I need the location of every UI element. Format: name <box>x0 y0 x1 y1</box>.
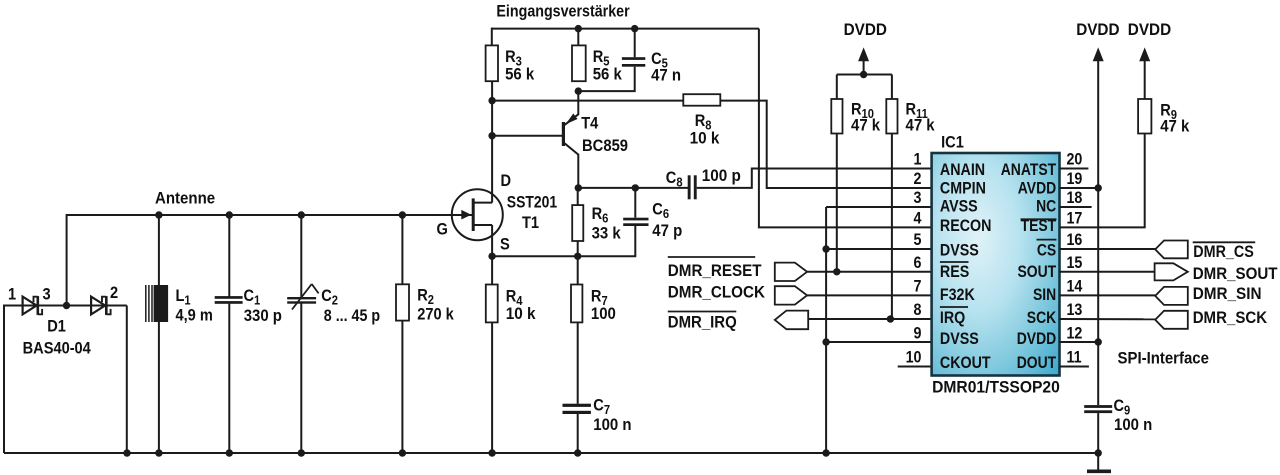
label C8 <box>666 169 683 190</box>
svg-text:DMR_RESET: DMR_RESET <box>668 261 762 280</box>
wire drain up <box>491 81 493 202</box>
wire C5 bottom to R5 node <box>578 67 634 91</box>
label 47 k R11 <box>906 117 935 135</box>
ic IC1 body <box>932 153 1060 376</box>
node ground dot C7 <box>574 449 581 456</box>
svg-text:DMR_CLOCK: DMR_CLOCK <box>668 283 765 302</box>
label DMR_RESET <box>668 261 762 280</box>
label 100 n C9 <box>1114 416 1152 434</box>
node AVSS ground dot <box>822 449 829 456</box>
pin number 5 <box>914 231 922 249</box>
overline CS <box>1037 239 1057 241</box>
svg-text:6: 6 <box>914 254 922 272</box>
pin number 4 <box>914 210 922 228</box>
svg-text:DMR_IRQ: DMR_IRQ <box>668 314 737 332</box>
svg-text:SIN: SIN <box>1033 286 1056 305</box>
wire C1 bottom stub <box>228 304 230 453</box>
node ground dot L1 <box>155 449 162 456</box>
capacitor C7 <box>563 404 591 407</box>
ground symbol <box>1087 469 1111 473</box>
connector DMR_CLOCK <box>775 286 807 304</box>
svg-text:AVDD: AVDD <box>1018 179 1056 198</box>
svg-text:5: 5 <box>914 231 922 249</box>
label DMR01/TSSOP20 <box>932 378 1060 397</box>
pin name ANAIN pin1 <box>940 161 985 179</box>
pin number 3 <box>914 189 922 207</box>
node rail dot C2 <box>298 211 305 218</box>
label R10 <box>851 101 874 122</box>
resistor R3 <box>486 45 498 81</box>
wire R4 bottom stub <box>491 322 493 453</box>
svg-text:16: 16 <box>1067 231 1083 249</box>
connector DMR_CS <box>1155 241 1188 259</box>
wire R11 top stub <box>891 75 893 100</box>
wire R8 row <box>492 100 684 102</box>
pin number 20 <box>1067 151 1083 169</box>
svg-text:8: 8 <box>914 301 922 319</box>
pin name RES pin6 <box>940 263 969 281</box>
pin name F32K pin7 <box>940 286 976 304</box>
svg-text:2: 2 <box>110 284 118 302</box>
label BAS40-04 <box>23 340 91 358</box>
label 330 p <box>244 307 282 325</box>
pin number 11 <box>1067 348 1082 366</box>
label SST201 <box>507 193 558 212</box>
svg-text:DVDD: DVDD <box>844 20 887 39</box>
wire R7 to C7 <box>577 322 579 403</box>
T4 collector <box>565 143 579 155</box>
svg-text:100 n: 100 n <box>593 416 631 434</box>
label T1 <box>522 214 539 232</box>
wire pin10 stub <box>898 366 932 368</box>
node ground dot C2 <box>298 449 305 456</box>
wire pin12 stub <box>1060 341 1099 343</box>
pin name DVDD pin12 <box>1017 330 1056 349</box>
pin number 17 <box>1067 210 1083 228</box>
svg-text:1: 1 <box>914 151 922 169</box>
capacitor C6 <box>623 218 648 221</box>
node R3-base dot <box>488 132 495 139</box>
label C5 <box>651 50 668 71</box>
svg-text:T4: T4 <box>581 115 598 133</box>
connector DMR_RESET <box>775 263 807 281</box>
node ground dot R4 <box>488 449 495 456</box>
svg-text:D: D <box>501 172 512 190</box>
node rail-R5 dot <box>575 25 582 32</box>
svg-text:47 k: 47 k <box>906 117 935 135</box>
label R8 <box>695 112 712 133</box>
pin label 3 <box>43 286 51 304</box>
label DMR_CS overline <box>1193 241 1256 243</box>
T4 base bar <box>562 122 565 146</box>
svg-text:7: 7 <box>914 277 922 295</box>
capacitor C8 <box>688 175 691 199</box>
svg-text:DVSS: DVSS <box>940 241 979 259</box>
node pin12 dot <box>1095 338 1102 345</box>
capacitor C2 trimmer <box>287 297 316 299</box>
T1 gate bar <box>472 198 475 231</box>
wire pin15 row <box>1060 271 1155 273</box>
label R5 <box>593 48 610 69</box>
connector DMR_SIN <box>1155 287 1188 305</box>
wire C5 top stub <box>634 28 636 58</box>
node R11 pin8 dot <box>887 315 894 322</box>
resistor R7 <box>571 285 582 323</box>
svg-text:CMPIN: CMPIN <box>940 179 986 197</box>
label C7 <box>593 397 610 418</box>
power DVDD right label <box>1128 20 1171 39</box>
svg-text:1: 1 <box>8 286 16 304</box>
wire pin16 row <box>1060 248 1156 250</box>
svg-text:14: 14 <box>1067 277 1083 295</box>
pin name CKOUT pin10 <box>940 354 991 372</box>
svg-text:330 p: 330 p <box>244 307 282 325</box>
wire pin11 stub <box>1060 366 1089 368</box>
node pin19 dot <box>1095 184 1102 191</box>
pin name CS pin16 <box>1037 241 1056 260</box>
wire T4 base <box>492 135 562 137</box>
transistor T1 body <box>452 189 503 240</box>
svg-text:SOUT: SOUT <box>1018 263 1057 282</box>
svg-text:BAS40-04: BAS40-04 <box>23 340 91 358</box>
wire pin9 row <box>826 341 932 343</box>
label C1 <box>244 287 261 308</box>
wire R3 top stub <box>491 28 493 46</box>
svg-text:10 k: 10 k <box>506 304 536 323</box>
wire pin5 row <box>826 248 932 250</box>
svg-text:47 k: 47 k <box>1160 118 1189 136</box>
svg-text:AVSS: AVSS <box>940 197 978 215</box>
label 47 p <box>652 222 682 240</box>
label 100 R7 <box>591 305 616 323</box>
node D1 tap dot <box>63 302 70 309</box>
node rail dot L1 <box>155 211 162 218</box>
label C2 <box>321 287 338 308</box>
pin name DVSS pin5 <box>940 241 979 259</box>
svg-text:CKOUT: CKOUT <box>940 354 991 372</box>
wire C9 bottom stub <box>1097 413 1099 470</box>
svg-text:DVDD: DVDD <box>1128 20 1171 39</box>
label IC1 <box>941 134 964 152</box>
node R3-R8 dot <box>488 97 495 104</box>
svg-text:SCK: SCK <box>1027 309 1057 328</box>
resistor R9 <box>1138 99 1151 134</box>
label DMR_SIN <box>1193 284 1262 303</box>
pin number 19 <box>1067 170 1083 188</box>
label D <box>501 172 512 190</box>
wire antenna rail <box>67 214 473 216</box>
svg-text:D1: D1 <box>47 318 66 336</box>
label C9 <box>1114 397 1131 418</box>
wire R6 bottom stub <box>577 241 579 256</box>
label 47 n <box>651 67 681 85</box>
pin name TEST pin17 <box>1021 217 1057 236</box>
resistor R8 <box>683 94 720 106</box>
svg-text:270 k: 270 k <box>417 306 454 324</box>
pin label 2 <box>110 284 118 302</box>
pin number 9 <box>914 324 922 342</box>
pin number 15 <box>1067 254 1083 272</box>
svg-text:DMR01/TSSOP20: DMR01/TSSOP20 <box>932 378 1060 397</box>
wire source row <box>492 255 578 257</box>
svg-text:100 n: 100 n <box>1114 416 1152 434</box>
svg-text:T1: T1 <box>522 214 539 232</box>
pin name CMPIN pin2 <box>940 179 986 197</box>
svg-text:2: 2 <box>914 170 922 188</box>
svg-text:DVDD: DVDD <box>1076 20 1119 39</box>
svg-text:56 k: 56 k <box>505 66 534 84</box>
wire pin17 to R9 <box>1060 134 1145 228</box>
svg-text:IRQ: IRQ <box>940 309 965 327</box>
pin name DVSS pin9 <box>940 330 979 348</box>
pin number 8 <box>914 301 922 319</box>
svg-text:19: 19 <box>1067 170 1083 188</box>
node collector dot <box>575 184 582 191</box>
pin name SOUT pin15 <box>1018 263 1057 282</box>
label S <box>500 236 510 254</box>
svg-text:DMR_SIN: DMR_SIN <box>1193 284 1262 303</box>
label R9 <box>1160 102 1177 123</box>
connector DMR_SOUT <box>1155 263 1188 280</box>
overline IRQ <box>940 306 968 308</box>
wire C7 bottom stub <box>577 414 579 453</box>
label D1 <box>47 318 66 336</box>
wire R10 top stub <box>836 75 838 100</box>
svg-text:100: 100 <box>591 305 616 323</box>
overline TEST <box>1021 218 1057 220</box>
wire R2 bottom stub <box>401 321 403 453</box>
label DMR_RESET overline <box>668 256 755 258</box>
T1 source tap <box>473 224 492 226</box>
svg-text:8 ... 45 p: 8 ... 45 p <box>324 307 380 325</box>
wire top rail <box>492 28 759 30</box>
node DVDD tee dot <box>860 71 867 78</box>
svg-text:DVDD: DVDD <box>1017 330 1056 349</box>
node R5-emitter dot <box>575 87 582 94</box>
pin name ANATST pin20 <box>1001 161 1057 180</box>
svg-text:13: 13 <box>1067 301 1083 319</box>
node ground dot D1 <box>123 449 130 456</box>
svg-text:15: 15 <box>1067 254 1083 272</box>
resistor R5 <box>572 45 586 81</box>
label T4 <box>581 115 598 133</box>
wire rail left drop <box>66 214 68 306</box>
wire AVSS vertical <box>825 207 827 453</box>
label DMR_IRQ overline <box>668 311 737 313</box>
wire source down <box>491 225 493 256</box>
svg-text:3: 3 <box>914 189 922 207</box>
capacitor C5 <box>622 57 645 60</box>
resistor R4 <box>486 285 498 323</box>
svg-text:4: 4 <box>914 210 922 228</box>
wire R2 top stub <box>401 215 403 284</box>
wire R11 bottom <box>891 134 893 320</box>
svg-text:ANATST: ANATST <box>1001 161 1057 180</box>
wire R7 top stub2 <box>577 256 579 284</box>
wire C6 bottom jog <box>578 226 636 256</box>
inductor L1 <box>145 285 147 322</box>
label 10 k R4 <box>506 304 536 323</box>
label Eingangsverstaerker <box>496 2 629 20</box>
label 100 p <box>702 166 741 185</box>
svg-text:S: S <box>500 236 510 254</box>
svg-text:47 n: 47 n <box>651 67 681 85</box>
label 33 k <box>592 225 621 243</box>
svg-text:Eingangsverstärker: Eingangsverstärker <box>496 2 629 20</box>
svg-text:12: 12 <box>1067 324 1083 342</box>
svg-text:100 p: 100 p <box>702 166 741 185</box>
label 10 k R8 <box>690 129 720 148</box>
label 56 k R3 <box>505 66 534 84</box>
wire C8 to pin1 <box>697 169 932 188</box>
pin number 6 <box>914 254 922 272</box>
wire R8 to pin2 drop <box>720 101 931 188</box>
label R11 <box>906 101 929 122</box>
pin name IRQ pin8 <box>940 309 965 327</box>
node rail dot R2 <box>399 211 406 218</box>
svg-text:10: 10 <box>906 348 922 366</box>
wire C6 top stub <box>634 188 636 218</box>
svg-text:RECON: RECON <box>940 217 992 235</box>
transistor T4 emitter <box>577 91 579 114</box>
pin name SIN pin14 <box>1033 286 1056 305</box>
svg-text:47 k: 47 k <box>851 117 880 135</box>
wire R5 top stub <box>577 28 579 46</box>
pin number 18 <box>1067 189 1083 207</box>
svg-text:SST201: SST201 <box>507 193 558 212</box>
label 270 k <box>417 306 454 324</box>
node rail-C5 dot <box>631 25 638 32</box>
svg-text:DOUT: DOUT <box>1017 354 1057 373</box>
label R6 <box>592 205 609 226</box>
label DMR_IRQ <box>668 314 737 332</box>
wire C1 top stub <box>228 215 230 297</box>
power DVDD left label <box>844 20 887 39</box>
power DVDD right arrow <box>1139 47 1150 61</box>
label DMR_SCK <box>1193 308 1268 327</box>
label 4,9 m <box>176 307 213 325</box>
svg-text:NC: NC <box>1036 197 1056 216</box>
wire C2 bottom stub <box>300 303 302 453</box>
svg-text:20: 20 <box>1067 151 1083 169</box>
label 8 ... 45 p <box>324 307 380 325</box>
svg-text:CS: CS <box>1037 241 1056 260</box>
capacitor C9 <box>1084 405 1112 408</box>
pin number 2 <box>914 170 922 188</box>
label 56 k R5 <box>593 66 622 84</box>
wire pin14 row <box>1060 294 1156 296</box>
resistor R2 <box>396 284 409 320</box>
label DMR_SOUT <box>1193 264 1278 283</box>
node ground dot R2 <box>399 449 406 456</box>
pin number 10 <box>906 348 922 366</box>
gate arrowhead <box>461 210 471 220</box>
svg-text:10 k: 10 k <box>690 129 720 148</box>
label BC859 <box>582 137 628 155</box>
label 47 k R9 <box>1160 118 1189 136</box>
node ground rail end dot <box>1095 449 1102 456</box>
pin label 1 <box>8 286 16 304</box>
pin number 1 <box>914 151 922 169</box>
label R7 <box>591 288 608 309</box>
pin name RECON pin4 <box>940 217 992 235</box>
svg-text:DMR_CS: DMR_CS <box>1193 243 1254 261</box>
svg-text:56 k: 56 k <box>593 66 622 84</box>
svg-text:DVSS: DVSS <box>940 330 979 348</box>
power DVDD mid label <box>1076 20 1119 39</box>
wire pin3 row <box>826 206 932 208</box>
svg-text:33 k: 33 k <box>592 225 621 243</box>
label DMR_CLOCK <box>668 283 765 302</box>
svg-text:18: 18 <box>1067 189 1083 207</box>
resistor R10 <box>831 99 842 134</box>
pin number 13 <box>1067 301 1083 319</box>
wire pin19 stub <box>1060 187 1099 189</box>
svg-text:11: 11 <box>1067 348 1082 366</box>
svg-text:DMR_SOUT: DMR_SOUT <box>1193 264 1278 283</box>
diode D1a <box>23 297 37 315</box>
label R2 <box>417 287 434 308</box>
wire R6 top stub <box>577 188 579 205</box>
pin number 16 <box>1067 231 1083 249</box>
diode D1b <box>91 297 105 315</box>
pin number 7 <box>914 277 922 295</box>
svg-text:IC1: IC1 <box>941 134 964 152</box>
svg-text:G: G <box>437 221 448 239</box>
node rail dot C1 <box>226 211 233 218</box>
label R3 <box>505 48 522 69</box>
svg-text:4,9 m: 4,9 m <box>176 307 213 325</box>
pin name AVDD pin19 <box>1018 179 1056 198</box>
wire gate into T1 <box>452 214 473 216</box>
svg-text:ANAIN: ANAIN <box>940 161 985 179</box>
wire L1 vertical <box>158 215 160 453</box>
connector DMR_IRQ <box>775 311 808 330</box>
wire pin13 row <box>1060 318 1156 320</box>
pin name SCK pin13 <box>1027 309 1057 328</box>
node ground dot C1 <box>226 449 233 456</box>
wire D1 left drop <box>3 305 5 454</box>
node R10 pin6 dot <box>833 268 840 275</box>
overline RES <box>940 261 969 263</box>
wire D1 row <box>4 305 127 307</box>
wire pin7 row <box>807 294 932 296</box>
label R4 <box>506 288 523 309</box>
pin name DOUT pin11 <box>1017 354 1057 373</box>
resistor R6 <box>572 205 583 241</box>
label 100 n C7 <box>593 416 631 434</box>
wire pin8 row <box>808 318 931 320</box>
connector DMR_SCK <box>1155 311 1188 329</box>
label L1 <box>176 287 191 308</box>
wire pin6 row <box>807 271 932 273</box>
label C6 <box>652 201 669 222</box>
wire R10 bottom <box>836 134 838 272</box>
svg-text:17: 17 <box>1067 210 1083 228</box>
T4 emitter arrow <box>566 114 578 125</box>
wire collector row <box>578 187 688 189</box>
svg-text:47 p: 47 p <box>652 222 682 240</box>
capacitor C1 <box>215 296 243 299</box>
svg-text:DMR_SCK: DMR_SCK <box>1193 308 1268 327</box>
svg-text:3: 3 <box>43 286 51 304</box>
pin name NC pin18 <box>1036 197 1056 216</box>
svg-text:9: 9 <box>914 324 922 342</box>
pin name AVSS pin3 <box>940 197 978 215</box>
label DMR_CS <box>1193 243 1254 261</box>
svg-text:SPI-Interface: SPI-Interface <box>1118 350 1209 368</box>
power DVDD left arrow <box>858 47 869 61</box>
